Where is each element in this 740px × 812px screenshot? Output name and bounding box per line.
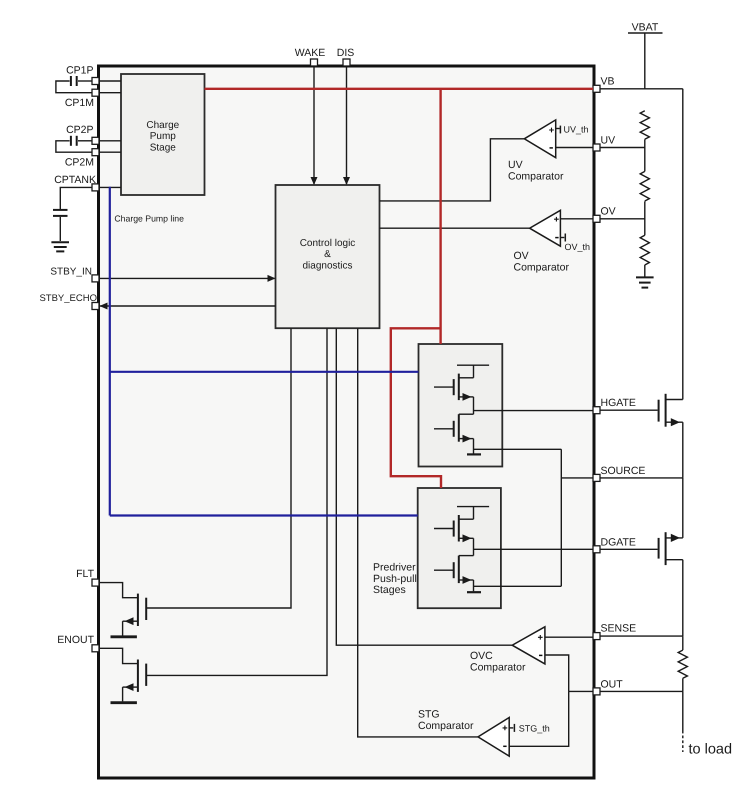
svg-text:Stages: Stages <box>373 584 406 596</box>
wire blue charge pump line vertical <box>109 187 111 516</box>
resistor R4 (sense) <box>678 650 687 678</box>
transistor Q5 (U5 high side) <box>434 515 474 542</box>
wire CP2M to charge pump <box>100 151 121 153</box>
svg-text:CP2P: CP2P <box>66 124 93 136</box>
wire R1 to R2 <box>644 139 646 171</box>
pin FLT <box>76 568 99 586</box>
wire OUT pin to internal net <box>569 690 593 692</box>
svg-text:OV: OV <box>514 250 529 262</box>
wire SOURCE pin to external FETs <box>600 477 683 479</box>
wire UV pin to UV comparator inverting input <box>556 147 593 149</box>
op-amp UV comparator <box>524 120 555 158</box>
label STG Comparator <box>418 709 474 733</box>
wire STBY_ECHO from control logic with arrow <box>100 303 276 310</box>
predriver block U5 (DGATE) <box>418 488 501 608</box>
predriver U5 supply rail <box>457 507 489 520</box>
wire UV comparator output to control logic <box>380 139 525 201</box>
wire CP1M to charge pump <box>100 92 121 94</box>
svg-text:UV: UV <box>601 135 616 147</box>
svg-text:SENSE: SENSE <box>601 623 637 635</box>
pin WAKE <box>295 47 326 66</box>
pin SOURCE <box>593 465 645 481</box>
wire CP1P to charge pump <box>100 80 121 82</box>
pin DIS <box>337 47 355 66</box>
pin CPTANK <box>54 174 99 191</box>
wire DIS to control logic with arrow <box>343 66 350 185</box>
wire R2 to R3 <box>644 201 646 235</box>
wire blue branch to predriver U4 <box>110 371 419 373</box>
ground for Q1 <box>111 635 137 638</box>
svg-text:Comparator: Comparator <box>418 720 474 732</box>
svg-text:Control logic: Control logic <box>300 238 356 249</box>
svg-text:STBY_ECHO: STBY_ECHO <box>39 293 97 304</box>
svg-text:to load: to load <box>689 742 733 758</box>
wire OV pin to OV comparator non-inverting input <box>560 218 593 220</box>
ground for C3 <box>51 242 69 251</box>
pin ENOUT <box>57 634 99 652</box>
op-amp OV comparator <box>530 210 561 246</box>
svg-text:OVC: OVC <box>470 650 493 662</box>
wire U4 return to SOURCE net <box>474 448 562 450</box>
pin STBY_ECHO <box>39 293 99 310</box>
pin HGATE <box>593 397 636 414</box>
wire WAKE to control logic with arrow <box>311 66 318 185</box>
pin STBY_IN <box>50 267 99 282</box>
svg-text:Stage: Stage <box>150 142 177 153</box>
svg-text:CP2M: CP2M <box>65 157 94 169</box>
wire SENSE pin to external net <box>600 635 683 637</box>
label OVC Comparator <box>470 650 526 674</box>
transistor Q1 (FLT open drain) <box>99 583 146 636</box>
transistor Q7 (external high-side MOSFET) <box>600 394 683 478</box>
transistor Q6 (U5 low side) <box>434 556 474 592</box>
transistor Q3 (U4 high side) <box>434 374 474 401</box>
wire R4 to OUT net <box>682 678 684 691</box>
pin VB <box>593 76 615 93</box>
resistor R2 <box>640 171 649 201</box>
wire STBY_IN to control logic with arrow <box>99 275 276 282</box>
label to load <box>689 742 733 758</box>
wire STG output to control logic <box>358 328 478 737</box>
wire SENSE node to R4 <box>682 636 684 650</box>
pin CP2P <box>66 124 99 144</box>
wire CP2P to charge pump <box>100 140 121 142</box>
svg-text:STG: STG <box>418 709 440 721</box>
label Charge Pump line <box>114 214 184 224</box>
wire SOURCE internal net junction <box>561 449 593 586</box>
pin DGATE <box>593 536 636 552</box>
pin OUT <box>593 679 623 695</box>
node VBAT <box>628 22 663 89</box>
pin CP2M <box>65 149 99 169</box>
wire OVC inverting input to OUT net <box>545 655 569 691</box>
svg-text:Comparator: Comparator <box>470 662 526 674</box>
svg-text:Comparator: Comparator <box>508 170 564 182</box>
transistor Q2 (ENOUT open drain) <box>99 648 146 701</box>
pin SENSE <box>593 623 636 640</box>
svg-text:SOURCE: SOURCE <box>601 465 646 477</box>
wire HGATE from U4 output <box>474 410 594 412</box>
label UV Comparator <box>508 159 564 182</box>
svg-text:VB: VB <box>601 76 615 88</box>
STG_th reference input <box>509 723 550 733</box>
IC body U1 <box>99 66 595 778</box>
svg-text:FLT: FLT <box>76 568 94 580</box>
svg-text:STG_th: STG_th <box>519 723 550 733</box>
svg-text:DGATE: DGATE <box>601 536 636 548</box>
wire OVC output to control logic <box>336 328 512 645</box>
wire FLT gate from control logic <box>146 328 291 608</box>
ground for Q2 <box>111 701 137 704</box>
label OV Comparator <box>514 250 570 273</box>
wire R3 to ground <box>644 265 646 277</box>
svg-text:CPTANK: CPTANK <box>54 174 96 186</box>
pin CP1P <box>66 65 99 85</box>
svg-text:OUT: OUT <box>601 679 624 691</box>
transistor Q8 (external reverse battery MOSFET) <box>600 478 683 636</box>
wire red branch to predriver U5 top <box>391 328 441 488</box>
wire SENSE pin to OVC non-inverting input <box>545 636 593 638</box>
predriver block U4 (HGATE) <box>419 344 503 467</box>
wire blue branch to predriver U5 <box>110 514 418 516</box>
svg-text:diagnostics: diagnostics <box>302 260 352 271</box>
transistor Q4 (U4 low side) <box>434 414 474 453</box>
svg-text:CP1M: CP1M <box>65 97 94 109</box>
capacitor C2 (CP2 flying cap) <box>56 136 92 152</box>
OV_th reference input <box>560 234 590 253</box>
op-amp OVC comparator <box>512 627 545 664</box>
wire UV pin to divider <box>600 147 645 149</box>
pin OV <box>593 206 616 223</box>
predriver U4 supply rail <box>457 365 489 378</box>
wire DGATE from U5 output <box>474 548 594 550</box>
capacitor C1 (CP1 flying cap) <box>56 76 92 93</box>
node U4 output <box>473 397 475 414</box>
wire VB red net (charge pump to VB pin) <box>205 88 594 90</box>
wire external drain rail <box>682 89 684 400</box>
pin CP1M <box>65 89 99 109</box>
svg-text:&: & <box>324 249 331 260</box>
ground for U4 low side <box>467 453 481 455</box>
wire red branch to predriver U4 top <box>439 89 441 344</box>
resistor R3 <box>640 235 649 265</box>
svg-text:VBAT: VBAT <box>632 22 659 34</box>
svg-text:WAKE: WAKE <box>295 47 326 59</box>
svg-text:UV_th: UV_th <box>564 125 589 135</box>
svg-text:UV: UV <box>508 159 523 171</box>
svg-text:DIS: DIS <box>337 47 355 59</box>
wire VB pin to external rail <box>600 88 683 90</box>
op-amp STG comparator <box>478 718 509 757</box>
wire OV comparator output to control logic <box>380 227 530 229</box>
UV_th reference input <box>556 125 589 135</box>
resistor R1 <box>640 111 649 139</box>
control logic block U3 <box>276 185 380 328</box>
wire ENOUT gate from control logic <box>146 328 327 675</box>
ground divider <box>636 277 654 287</box>
pin UV <box>593 135 615 152</box>
svg-text:OV_th: OV_th <box>565 242 591 252</box>
wire U5 return to SOURCE net <box>474 585 562 587</box>
svg-text:Pump: Pump <box>150 131 177 142</box>
svg-text:CP1P: CP1P <box>66 65 93 77</box>
svg-text:HGATE: HGATE <box>601 397 636 409</box>
svg-text:OV: OV <box>601 206 616 218</box>
svg-text:Predriver: Predriver <box>373 562 416 574</box>
wire CPTANK to charge pump <box>100 186 121 188</box>
charge pump stage block U2 <box>121 74 205 195</box>
svg-text:ENOUT: ENOUT <box>57 634 94 646</box>
svg-text:Charge: Charge <box>146 120 179 131</box>
wire OUT to load <box>682 691 684 752</box>
svg-text:STBY_IN: STBY_IN <box>50 267 92 278</box>
wire STG inverting input to OUT net <box>509 691 569 746</box>
svg-text:Comparator: Comparator <box>514 261 570 273</box>
ground for U5 low side <box>467 591 481 593</box>
label Predriver Push-pull Stages <box>373 562 417 596</box>
svg-text:Charge Pump line: Charge Pump line <box>114 214 184 224</box>
wire OV pin to divider <box>600 218 645 220</box>
wire OUT pin to external net <box>600 690 683 692</box>
node U5 output <box>473 538 475 555</box>
capacitor C3 (CPTANK tank cap) <box>53 187 92 241</box>
